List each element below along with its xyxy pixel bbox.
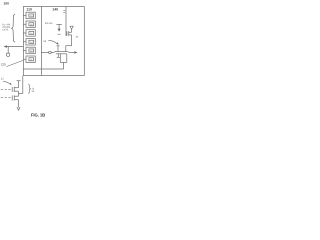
svg-text:CKTS: CKTS	[2, 28, 9, 31]
pad terminal circle	[6, 53, 9, 56]
cell block 2	[23, 21, 35, 28]
capacitor drop network	[59, 54, 61, 63]
cell block 4	[23, 39, 35, 46]
antenna terminal (T with down arrow)	[56, 24, 61, 26]
wire from top rail	[65, 7, 67, 37]
gate dashed input (lower)	[1, 97, 12, 99]
cell block 5	[23, 47, 35, 54]
svg-text:100: 100	[4, 2, 10, 6]
divider wall	[40, 7, 42, 76]
svg-text:FIG. 1B: FIG. 1B	[31, 113, 45, 118]
gate dashed input (upper)	[1, 89, 12, 91]
output down arrow	[18, 100, 20, 108]
brace	[11, 14, 15, 42]
svg-text:110: 110	[26, 7, 32, 11]
svg-text:140: 140	[52, 7, 58, 11]
wire tick marks	[63, 9, 65, 11]
brace label (driver group)	[28, 84, 31, 94]
wire branch down	[7, 47, 9, 53]
supply triangle	[70, 26, 73, 29]
cell block 6	[23, 56, 35, 63]
pad wire to driver	[22, 76, 24, 94]
transistor Q4 (lower driver)	[12, 95, 18, 100]
svg-text:14 xxx: 14 xxx	[45, 22, 53, 25]
gate wire with bubble	[41, 52, 48, 54]
cell block 1	[23, 12, 35, 19]
leader line 120	[6, 60, 23, 66]
transistor Q3 (upper driver)	[12, 87, 18, 96]
output arrow	[69, 52, 76, 54]
outer box (IC boundary)	[23, 7, 84, 76]
brace text (to/from other circuits)	[2, 23, 10, 31]
node wire with left arrow	[5, 46, 23, 48]
transistor Q2 (pass device)	[54, 46, 68, 58]
cell block 3	[23, 30, 35, 37]
transistor Q1 (upper right)	[66, 29, 72, 51]
svg-text:120: 120	[1, 63, 6, 67]
bus wire (horizontal, y=69)	[23, 68, 63, 70]
figure label 100	[4, 2, 10, 6]
supply rail	[17, 80, 21, 82]
